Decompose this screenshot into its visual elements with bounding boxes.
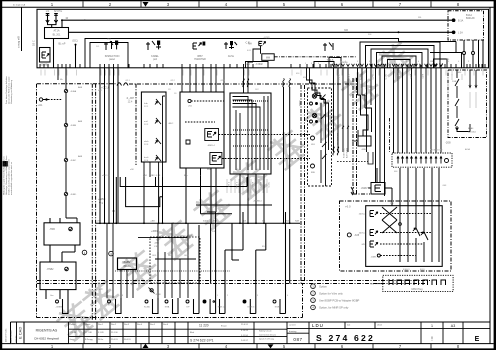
svg-text:-HSB: -HSB — [49, 228, 55, 231]
svg-text:27.1.88: 27.1.88 — [70, 332, 78, 334]
svg-text:B201A8: B201A8 — [466, 17, 475, 20]
svg-text:2GB: 2GB — [452, 81, 457, 83]
svg-text:A3: A3 — [451, 324, 455, 328]
svg-text:Fecha 9.10.10: Fecha 9.10.10 — [11, 330, 13, 344]
svg-text:29.6.91: 29.6.91 — [241, 324, 249, 326]
svg-text:5_M4: 5_M4 — [227, 182, 229, 188]
svg-text:29.6.91: 29.6.91 — [111, 339, 119, 341]
svg-text:-N8B1: -N8B1 — [361, 149, 368, 151]
svg-text:KA3T4: KA3T4 — [259, 182, 262, 189]
svg-text:LDU: LDU — [312, 323, 324, 328]
svg-text:uN1 1 8: uN1 1 8 — [150, 175, 158, 177]
svg-text:sheet: sheet — [377, 324, 383, 327]
svg-text:N/1 P/L: N/1 P/L — [54, 10, 63, 13]
svg-text:74T2Y: 74T2Y — [267, 182, 269, 189]
svg-text:087: 087 — [293, 337, 302, 342]
svg-text:Option for Vdrv only: Option for Vdrv only — [319, 291, 343, 295]
svg-text:-8M1L4: -8M1L4 — [207, 145, 215, 147]
svg-text:-6BB: -6BB — [154, 243, 159, 245]
svg-text:+6.0: +6.0 — [345, 205, 351, 209]
svg-text:Unterlage, Verwertung und Mitt: Unterlage, Verwertung und Mitteilung ihr… — [5, 156, 8, 195]
svg-text:-X.81: -X.81 — [244, 64, 250, 66]
svg-text:L/1: L/1 — [46, 10, 50, 13]
svg-text:-X8H: -X8H — [212, 221, 217, 223]
svg-text:Name: Name — [85, 324, 91, 326]
svg-text:BL 201: BL 201 — [53, 34, 61, 37]
svg-text:Datum: Datum — [70, 323, 76, 326]
svg-text:-REC: -REC — [168, 123, 174, 125]
svg-text:74T2Y: 74T2Y — [384, 74, 386, 81]
svg-text:(DC): (DC) — [72, 40, 77, 43]
svg-text:A35Y: A35Y — [421, 74, 424, 80]
svg-text:-X.8M2: -X.8M2 — [255, 64, 263, 66]
svg-text:J4V: J4V — [361, 244, 365, 246]
svg-text:E CAD: E CAD — [18, 327, 23, 339]
svg-text:AT1A: AT1A — [53, 30, 59, 33]
svg-text:8GBV4: 8GBV4 — [403, 269, 410, 271]
svg-text:B201A1: B201A1 — [468, 131, 477, 134]
svg-text:Option: Option — [319, 284, 327, 288]
svg-text:S 274 622-3 P1: S 274 622-3 P1 — [190, 339, 214, 343]
svg-text:24VuL: 24VuL — [359, 233, 366, 235]
svg-text:-X8881: -X8881 — [55, 307, 63, 309]
svg-text:-HSB2: -HSB2 — [46, 268, 54, 271]
svg-text:CH-6052 Hergiswil: CH-6052 Hergiswil — [34, 337, 59, 341]
svg-text:B1A4: B1A4 — [468, 127, 474, 130]
svg-text:wir uns alle Rechte vor. sowie: wir uns alle Rechte vor. sowie — [8, 76, 11, 104]
svg-text:KCBD: KCBD — [144, 307, 150, 309]
svg-text:-N2B1: -N2B1 — [298, 100, 300, 107]
svg-text:KSE.G: KSE.G — [248, 307, 255, 309]
svg-text:JJM/L: JJM/L — [371, 257, 378, 259]
svg-text:A81A: A81A — [465, 148, 471, 151]
svg-text:1: 1 — [431, 324, 433, 328]
svg-text:S 274 622: S 274 622 — [316, 333, 375, 343]
svg-text:-8_UML4: -8_UML4 — [253, 201, 262, 203]
svg-text:-X48D: -X48D — [70, 194, 77, 196]
svg-text:Rev.2: Rev.2 — [111, 324, 117, 326]
svg-text:Rev.4: Rev.4 — [137, 324, 143, 326]
svg-text:ausdruecklich zugestanden wird: ausdruecklich zugestanden wird. es — [10, 162, 13, 195]
svg-text:1A4Y4: 1A4Y4 — [337, 74, 340, 81]
svg-text:A81A A81G2: A81A A81G2 — [430, 149, 443, 152]
svg-text:8GBV: 8GBV — [124, 261, 131, 264]
svg-text:-C.81: -C.81 — [245, 43, 251, 45]
svg-text:29.1.90: 29.1.90 — [111, 332, 119, 334]
svg-text:T 34.5: T 34.5 — [327, 59, 334, 62]
svg-text:pult: pult — [153, 58, 157, 61]
svg-text:Rev.3: Rev.3 — [124, 324, 130, 326]
svg-text:-X28: -X28 — [354, 234, 360, 237]
svg-text:uN1 1 8: uN1 1 8 — [102, 175, 110, 177]
svg-text:Rev.5: Rev.5 — [150, 324, 156, 326]
svg-text:PLUG: PLUG — [124, 265, 131, 268]
svg-text:Ersatz: Ersatz — [221, 325, 227, 328]
svg-text:bx mqd eCA: bx mqd eCA — [13, 3, 26, 6]
svg-text:bruft: bruft — [144, 156, 149, 159]
svg-text:-X181: -X181 — [264, 38, 271, 40]
svg-text:30.6.91: 30.6.91 — [124, 339, 132, 341]
svg-text:panel: panel — [109, 58, 115, 61]
svg-text:MINI Plug: MINI Plug — [412, 288, 424, 291]
svg-text:Blatt: Blatt — [190, 331, 194, 334]
svg-text:021617 Fecha: 021617 Fecha — [6, 328, 8, 342]
svg-text:-X48B: -X48B — [70, 125, 77, 127]
svg-text:drawing: drawing — [289, 330, 297, 333]
svg-text:W.Ge.: W.Ge. — [98, 339, 104, 341]
svg-text:11 220: 11 220 — [199, 324, 209, 328]
svg-text:+6BV: +6BV — [151, 229, 158, 233]
svg-text:Fuer diese Unterlage behalten: Fuer diese Unterlage behalten — [5, 75, 8, 104]
svg-text:27.7.88: 27.7.88 — [85, 332, 93, 334]
svg-text:KSE.C: KSE.C — [218, 307, 225, 309]
svg-text:Use 8GBP PCB w/ Adapter 8GBP: Use 8GBP PCB w/ Adapter 8GBP — [319, 298, 359, 302]
svg-text:24VuL: 24VuL — [359, 214, 366, 216]
svg-text:KSE: KSE — [275, 307, 280, 309]
svg-text:-208: -208 — [445, 141, 451, 145]
svg-text:1B C: 1B C — [32, 40, 36, 46]
svg-text:B.Zaugg: B.Zaugg — [85, 339, 93, 341]
svg-text:Connection bl.sws: Connection bl.sws — [259, 334, 276, 337]
svg-text:Inhaltes ist nicht gestattet,: Inhaltes ist nicht gestattet, soweit nic… — [8, 159, 11, 195]
svg-text:Verwertung und Mitteilung: Verwertung und Mitteilung — [10, 79, 13, 104]
svg-text:4.10.93: 4.10.93 — [241, 330, 249, 332]
svg-text:-uBB: -uBB — [150, 221, 155, 223]
svg-text:KCB KCBT: KCB KCBT — [344, 147, 346, 158]
svg-text:L 3A: L 3A — [458, 31, 463, 34]
svg-text:inputs X LR asq.: inputs X LR asq. — [259, 338, 275, 341]
svg-text:A30Y4 A35: A30Y4 A35 — [346, 147, 349, 158]
svg-text:12.4: 12.4 — [128, 100, 133, 103]
svg-text:Rev.1: Rev.1 — [98, 324, 104, 326]
svg-text:BL-uP: BL-uP — [59, 43, 66, 46]
svg-text:5_M4U: 5_M4U — [235, 182, 237, 189]
svg-text:A30-A35 B/N: A30-A35 B/N — [336, 133, 339, 146]
svg-text:9.1.89: 9.1.89 — [98, 332, 104, 334]
svg-text:HANDTER: HANDTER — [194, 58, 206, 61]
svg-text:-A11: -A11 — [38, 104, 44, 107]
svg-text:KA3T4: KA3T4 — [359, 74, 362, 81]
svg-text:5_M4U: 5_M4U — [397, 74, 399, 81]
svg-text:-X288: -X288 — [155, 294, 161, 296]
svg-text:AUSL: AUSL — [228, 55, 235, 58]
svg-text:Rev.6: Rev.6 — [163, 324, 169, 326]
svg-text:Weitergabe sowie Vervielfaelti: Weitergabe sowie Vervielfaeltigung diese… — [2, 156, 5, 195]
svg-text:A30Y: A30Y — [409, 74, 412, 80]
svg-text:last: last — [347, 324, 351, 327]
svg-text:B 3A: B 3A — [458, 19, 464, 22]
svg-text:9.11.94: 9.11.94 — [241, 335, 249, 337]
svg-text:current: current — [289, 324, 296, 327]
svg-text:Gepr.: Gepr. — [70, 339, 75, 341]
svg-text:KTC: KTC — [108, 305, 113, 307]
svg-text:-8GBV 4: -8GBV 4 — [361, 188, 371, 190]
svg-text:8Bu: 8Bu — [207, 169, 211, 171]
svg-text:Option, for MNR SP only: Option, for MNR SP only — [319, 306, 349, 310]
svg-text:KBU: KBU — [311, 172, 316, 174]
svg-text:a mag e/B: a mag e/B — [17, 36, 21, 48]
svg-text:E: E — [475, 336, 480, 343]
svg-text:+C: +C — [99, 287, 103, 291]
svg-text:Safety Circuit: Safety Circuit — [259, 330, 272, 333]
svg-text:KHA: KHA — [165, 306, 170, 309]
svg-text:306: 306 — [344, 29, 349, 32]
svg-text:-X48C: -X48C — [70, 160, 77, 162]
svg-text:A7B4Y: A7B4Y — [251, 182, 254, 189]
svg-text:1A43Y: 1A43Y — [371, 74, 374, 81]
svg-text:A7B4Y: A7B4Y — [347, 74, 350, 81]
svg-text:RIGENTIS AG: RIGENTIS AG — [36, 329, 58, 333]
svg-text:2.05.97: 2.05.97 — [241, 340, 249, 342]
svg-text:-X48A: -X48A — [70, 90, 77, 93]
